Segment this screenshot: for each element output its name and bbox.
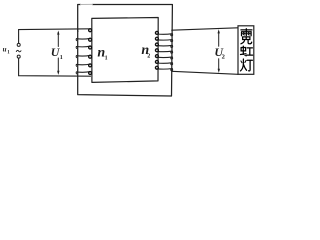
svg-text:1: 1: [60, 55, 63, 61]
svg-text:1: 1: [105, 56, 108, 62]
svg-text:2: 2: [147, 54, 150, 60]
svg-text:1: 1: [7, 50, 10, 55]
svg-text:2: 2: [222, 54, 225, 61]
svg-text:u: u: [3, 46, 7, 54]
